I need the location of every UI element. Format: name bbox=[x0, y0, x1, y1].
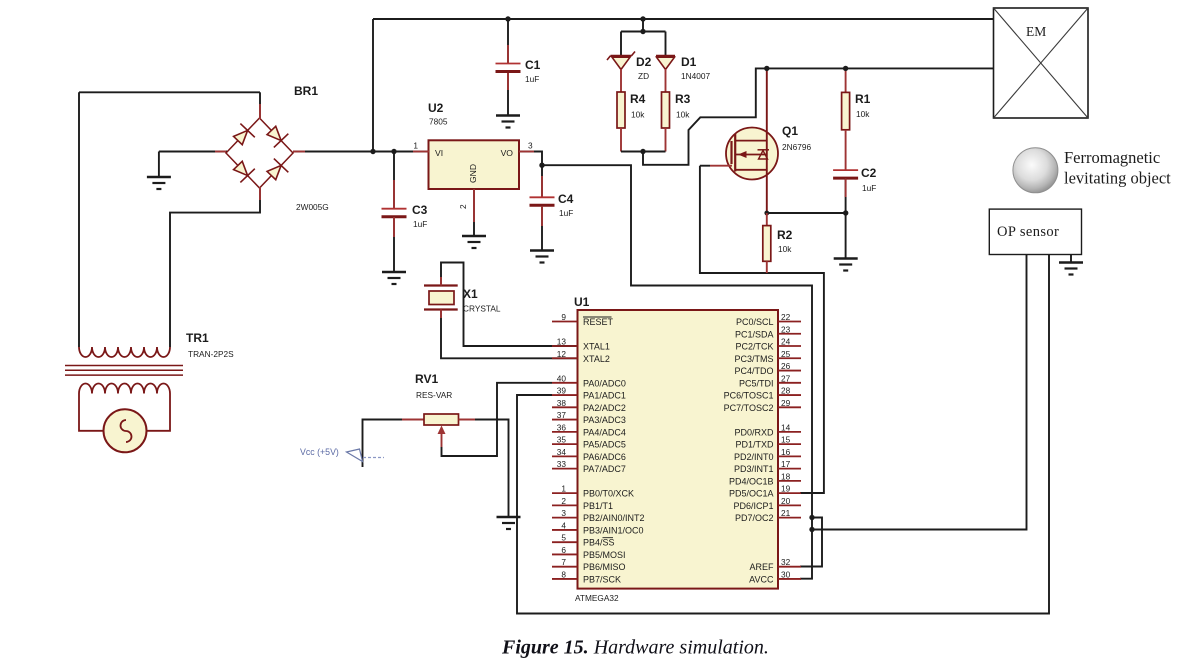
svg-text:10k: 10k bbox=[676, 110, 690, 120]
svg-text:1uF: 1uF bbox=[862, 183, 876, 193]
svg-text:3: 3 bbox=[528, 141, 533, 151]
svg-text:PB6/MISO: PB6/MISO bbox=[583, 562, 626, 572]
svg-text:38: 38 bbox=[557, 398, 567, 408]
junction dot rail/R1 bbox=[843, 66, 848, 71]
svg-text:TRAN-2P2S: TRAN-2P2S bbox=[188, 349, 234, 359]
wire +12V top rail bbox=[373, 18, 994, 20]
svg-text:30: 30 bbox=[781, 569, 791, 579]
svg-text:AREF: AREF bbox=[749, 562, 774, 572]
svg-text:PC5/TDI: PC5/TDI bbox=[739, 378, 774, 388]
wire C1 bottom lead bbox=[507, 73, 509, 116]
wire C3 bottom lead bbox=[393, 217, 395, 272]
OP sensor box bbox=[989, 209, 1081, 254]
ground at C2 bbox=[834, 259, 858, 271]
svg-text:U1: U1 bbox=[574, 295, 590, 309]
transistor Q1 MOSFET bbox=[726, 128, 778, 180]
wire diode top connector bbox=[621, 31, 666, 33]
junction dot rail/diodes bbox=[640, 16, 645, 21]
wire OP sensor supply bbox=[812, 255, 1027, 530]
svg-text:7: 7 bbox=[561, 557, 566, 567]
svg-text:26: 26 bbox=[781, 361, 791, 371]
resistor R4 bbox=[617, 92, 625, 128]
svg-text:16: 16 bbox=[781, 447, 791, 457]
resistor R1 bbox=[842, 92, 850, 129]
ferromagnetic levitating object sphere bbox=[1013, 148, 1058, 193]
diode D1 bbox=[656, 32, 675, 70]
resistor R3 bbox=[662, 92, 670, 128]
svg-text:40: 40 bbox=[557, 373, 567, 383]
svg-text:C1: C1 bbox=[525, 58, 541, 72]
svg-text:PB1/T1: PB1/T1 bbox=[583, 501, 613, 511]
wire diode bottom connector bbox=[621, 151, 666, 153]
svg-text:37: 37 bbox=[557, 410, 567, 420]
svg-text:PC3/TMS: PC3/TMS bbox=[734, 354, 773, 364]
junction dot rail/bridge output bbox=[370, 149, 375, 154]
svg-text:EM: EM bbox=[1026, 24, 1046, 39]
svg-text:36: 36 bbox=[557, 422, 567, 432]
svg-text:10k: 10k bbox=[856, 109, 870, 119]
wire red stub bridge left bbox=[215, 151, 226, 153]
wire X1 red tips bbox=[440, 277, 442, 286]
svg-text:3: 3 bbox=[561, 508, 566, 518]
wire left leg down to TR1 primary bbox=[78, 92, 80, 347]
capacitor C3 bbox=[382, 209, 407, 217]
wire flyback jog to drain rail bbox=[643, 68, 994, 164]
svg-text:PD2/INT0: PD2/INT0 bbox=[734, 452, 774, 462]
wire C4 top lead bbox=[541, 165, 543, 197]
potentiometer RV1 body bbox=[424, 414, 459, 425]
svg-text:RV1: RV1 bbox=[415, 372, 438, 386]
wire Q1 source to ground rail bbox=[767, 212, 846, 214]
svg-text:levitating object: levitating object bbox=[1064, 169, 1171, 188]
wire TR1 secondary left leg bbox=[79, 394, 104, 431]
AC source symbol of TR1 bbox=[104, 409, 147, 452]
wire RV1 left red bbox=[402, 419, 424, 421]
wire C3 top lead bbox=[393, 152, 395, 210]
svg-text:PD7/OC2: PD7/OC2 bbox=[735, 513, 774, 523]
svg-text:21: 21 bbox=[781, 508, 791, 518]
svg-text:AVCC: AVCC bbox=[749, 574, 774, 584]
svg-text:Ferromagnetic: Ferromagnetic bbox=[1064, 148, 1160, 167]
svg-text:PA3/ADC3: PA3/ADC3 bbox=[583, 415, 626, 425]
junction dot VO/C4 bbox=[539, 163, 544, 168]
svg-text:23: 23 bbox=[781, 324, 791, 334]
svg-text:10k: 10k bbox=[778, 244, 792, 254]
junction dot diode connector bbox=[640, 29, 645, 34]
bridge rectifier BR1 bbox=[226, 118, 293, 188]
ground at U2 pin2 bbox=[462, 236, 486, 248]
svg-text:Vcc (+5V): Vcc (+5V) bbox=[300, 447, 339, 457]
svg-text:VI: VI bbox=[435, 148, 443, 158]
capacitor C2 bbox=[833, 170, 858, 178]
svg-text:PC4/TDO: PC4/TDO bbox=[734, 366, 773, 376]
svg-text:PD6/ICP1: PD6/ICP1 bbox=[733, 501, 773, 511]
svg-text:29: 29 bbox=[781, 398, 791, 408]
wire rail drop to bridge output bbox=[372, 19, 374, 152]
regulator U2 box bbox=[429, 140, 520, 189]
svg-text:PC6/TOSC1: PC6/TOSC1 bbox=[724, 391, 774, 401]
svg-text:XTAL2: XTAL2 bbox=[583, 354, 610, 364]
transformer TR1 windings and core bbox=[65, 347, 183, 394]
svg-text:PC7/TOSC2: PC7/TOSC2 bbox=[724, 403, 774, 413]
ground at C3 bbox=[382, 272, 406, 284]
svg-text:1uF: 1uF bbox=[525, 74, 539, 84]
svg-text:ATMEGA32: ATMEGA32 bbox=[575, 593, 619, 603]
power terminal Vcc arrow bbox=[347, 449, 363, 462]
wire OP sensor right lead to bottom rail bbox=[517, 255, 1049, 614]
svg-text:X1: X1 bbox=[463, 287, 478, 301]
svg-text:PC0/SCL: PC0/SCL bbox=[736, 317, 774, 327]
svg-text:PB4/SS: PB4/SS bbox=[583, 538, 615, 548]
svg-text:VO: VO bbox=[501, 148, 514, 158]
svg-text:14: 14 bbox=[781, 422, 791, 432]
wire R2 bottom lead bbox=[766, 261, 768, 273]
svg-text:R4: R4 bbox=[630, 92, 646, 106]
svg-text:PD0/RXD: PD0/RXD bbox=[734, 427, 774, 437]
ground at bridge left bbox=[147, 177, 171, 189]
svg-text:D2: D2 bbox=[636, 55, 652, 69]
wire bridge output to U2 VI bbox=[293, 151, 429, 153]
svg-text:PA1/ADC1: PA1/ADC1 bbox=[583, 391, 626, 401]
wire bridge top lead bbox=[259, 92, 261, 119]
ground at C1 bbox=[496, 116, 520, 128]
U1 pins left bbox=[552, 312, 645, 584]
ground at OP sensor bbox=[1059, 263, 1083, 275]
wire gate lead bbox=[710, 165, 732, 167]
svg-text:1: 1 bbox=[413, 141, 418, 151]
wire red stub bridge bottom bbox=[259, 187, 261, 200]
svg-text:20: 20 bbox=[781, 496, 791, 506]
svg-text:35: 35 bbox=[557, 435, 567, 445]
svg-text:27: 27 bbox=[781, 373, 791, 383]
junction dot pin21 row bbox=[809, 515, 814, 520]
wire RV1 left to Vcc bbox=[363, 420, 403, 468]
wire red stub bridge right bbox=[293, 151, 305, 153]
junction dot source/R2 bbox=[764, 211, 769, 216]
electromagnet coil EM bbox=[994, 8, 1089, 118]
wire C2 bottom lead bbox=[845, 178, 847, 258]
capacitor C4 bbox=[530, 197, 555, 205]
svg-text:1N4007: 1N4007 bbox=[681, 71, 710, 81]
svg-text:1uF: 1uF bbox=[559, 208, 573, 218]
wire OP sensor ground stem bbox=[1070, 255, 1072, 263]
wire R3 bottom bbox=[665, 128, 667, 152]
svg-text:C2: C2 bbox=[861, 166, 877, 180]
svg-text:33: 33 bbox=[557, 459, 567, 469]
wire R4 bottom bbox=[620, 128, 622, 152]
svg-text:PD4/OC1B: PD4/OC1B bbox=[729, 476, 774, 486]
wire +5V to AVCC/AREF bbox=[542, 165, 812, 579]
svg-text:R3: R3 bbox=[675, 92, 691, 106]
svg-text:CRYSTAL: CRYSTAL bbox=[463, 304, 501, 314]
svg-text:6: 6 bbox=[561, 545, 566, 555]
svg-text:XTAL1: XTAL1 bbox=[583, 342, 610, 352]
svg-text:PB2/AIN0/INT2: PB2/AIN0/INT2 bbox=[583, 513, 645, 523]
wire R2 top lead bbox=[766, 213, 768, 226]
wire D2 to R4 bbox=[620, 69, 622, 92]
svg-text:39: 39 bbox=[557, 386, 567, 396]
wire C4 bottom lead bbox=[541, 206, 543, 251]
junction dot C3 tap bbox=[391, 149, 396, 154]
wire bridge AC- to ground bbox=[159, 151, 227, 153]
svg-text:2: 2 bbox=[561, 496, 566, 506]
wire X1 top to XTAL1 bbox=[441, 263, 578, 347]
svg-text:12: 12 bbox=[557, 349, 567, 359]
svg-text:PD3/INT1: PD3/INT1 bbox=[734, 464, 774, 474]
svg-text:1uF: 1uF bbox=[413, 219, 427, 229]
svg-text:2: 2 bbox=[458, 204, 468, 209]
svg-text:1: 1 bbox=[561, 484, 566, 494]
svg-text:BR1: BR1 bbox=[294, 84, 318, 98]
capacitor C1 bbox=[496, 64, 521, 72]
svg-text:28: 28 bbox=[781, 386, 791, 396]
svg-text:PB7/SCK: PB7/SCK bbox=[583, 574, 621, 584]
junction dot C2/source rail bbox=[843, 210, 848, 215]
svg-text:19: 19 bbox=[781, 484, 791, 494]
ground at C4 bbox=[530, 251, 554, 263]
svg-text:PB5/MOSI: PB5/MOSI bbox=[583, 550, 626, 560]
wire red stub bridge top bbox=[259, 104, 261, 119]
svg-text:RES-VAR: RES-VAR bbox=[416, 390, 452, 400]
wire top-left rail bbox=[79, 91, 260, 93]
wire RV1 wiper to PA0 bbox=[442, 383, 553, 456]
wire C1 top lead bbox=[507, 19, 509, 64]
IC U1 box bbox=[578, 310, 779, 589]
svg-text:PD5/OC1A: PD5/OC1A bbox=[729, 489, 774, 499]
svg-text:25: 25 bbox=[781, 349, 791, 359]
wire R1 to C2 bbox=[845, 130, 847, 171]
svg-text:32: 32 bbox=[781, 557, 791, 567]
wire X1 bottom to XTAL2 bbox=[441, 310, 578, 359]
svg-text:5: 5 bbox=[561, 533, 566, 543]
svg-text:C4: C4 bbox=[558, 192, 574, 206]
svg-text:22: 22 bbox=[781, 312, 791, 322]
wire RV1 right to ground bbox=[459, 420, 509, 518]
svg-text:2N6796: 2N6796 bbox=[782, 142, 811, 152]
crystal X1 bbox=[424, 286, 458, 310]
resistor R2 bbox=[763, 226, 771, 262]
wire gate red joint bbox=[700, 165, 710, 167]
wire TR1 secondary right leg bbox=[146, 394, 170, 431]
junction dot rail/C1 bbox=[505, 16, 510, 21]
wire D1 to R3 bbox=[665, 69, 667, 92]
wire RV1 right red bbox=[459, 419, 476, 421]
U1 pins right bbox=[724, 312, 801, 584]
wire rail to diode pair bbox=[642, 19, 644, 32]
svg-text:PA2/ADC2: PA2/ADC2 bbox=[583, 403, 626, 413]
svg-text:10k: 10k bbox=[631, 110, 645, 120]
wire red stub U2 pin1 bbox=[413, 151, 429, 153]
wire bridge bottom lead bbox=[170, 187, 260, 347]
diode D2 zener bbox=[607, 32, 635, 70]
svg-text:PB3/AIN1/OC0: PB3/AIN1/OC0 bbox=[583, 525, 644, 535]
junction dot flyback bottom bbox=[640, 149, 645, 154]
svg-text:GND: GND bbox=[468, 164, 478, 183]
wire Q1 drain-source vertical bbox=[766, 68, 768, 213]
svg-text:PA0/ADC0: PA0/ADC0 bbox=[583, 378, 626, 388]
svg-text:2W005G: 2W005G bbox=[296, 202, 329, 212]
ground at RV1 bbox=[497, 517, 521, 529]
wire gate net to PD5/OC1A bbox=[700, 166, 824, 493]
svg-text:PA5/ADC5: PA5/ADC5 bbox=[583, 440, 626, 450]
svg-text:34: 34 bbox=[557, 447, 567, 457]
svg-text:13: 13 bbox=[557, 337, 567, 347]
wire U2 pin3 out bbox=[519, 152, 542, 166]
svg-text:C3: C3 bbox=[412, 203, 428, 217]
svg-text:PD1/TXD: PD1/TXD bbox=[735, 440, 774, 450]
svg-text:8: 8 bbox=[561, 569, 566, 579]
wire U2 pin2 to ground bbox=[473, 189, 475, 236]
junction dot OP branch bbox=[809, 527, 814, 532]
svg-text:ZD: ZD bbox=[638, 71, 649, 81]
svg-text:4: 4 bbox=[561, 520, 566, 530]
RV1 wiper arrow bbox=[438, 426, 446, 435]
svg-text:15: 15 bbox=[781, 435, 791, 445]
svg-text:R2: R2 bbox=[777, 228, 793, 242]
svg-text:PB0/T0/XCK: PB0/T0/XCK bbox=[583, 489, 634, 499]
svg-text:9: 9 bbox=[561, 312, 566, 322]
svg-text:PA6/ADC6: PA6/ADC6 bbox=[583, 452, 626, 462]
wire AREF jog bbox=[800, 518, 822, 567]
svg-text:OP sensor: OP sensor bbox=[997, 224, 1059, 240]
svg-text:PA7/ADC7: PA7/ADC7 bbox=[583, 464, 626, 474]
svg-text:PC2/TCK: PC2/TCK bbox=[735, 342, 773, 352]
svg-text:R1: R1 bbox=[855, 92, 871, 106]
wire R1 top lead bbox=[845, 68, 847, 92]
svg-text:U2: U2 bbox=[428, 101, 444, 115]
svg-text:24: 24 bbox=[781, 337, 791, 347]
svg-text:TR1: TR1 bbox=[186, 331, 209, 345]
junction dot drain rail bbox=[764, 66, 769, 71]
wire ground stem at bridge bbox=[158, 152, 160, 178]
svg-text:7805: 7805 bbox=[429, 117, 448, 127]
svg-text:RESET: RESET bbox=[583, 317, 614, 327]
svg-text:PA4/ADC4: PA4/ADC4 bbox=[583, 427, 626, 437]
svg-text:D1: D1 bbox=[681, 55, 697, 69]
svg-text:18: 18 bbox=[781, 471, 791, 481]
svg-text:17: 17 bbox=[781, 459, 791, 469]
svg-text:Figure 15. Hardware simulation: Figure 15. Hardware simulation. bbox=[501, 637, 769, 659]
svg-text:PC1/SDA: PC1/SDA bbox=[735, 329, 774, 339]
svg-text:Q1: Q1 bbox=[782, 124, 798, 138]
